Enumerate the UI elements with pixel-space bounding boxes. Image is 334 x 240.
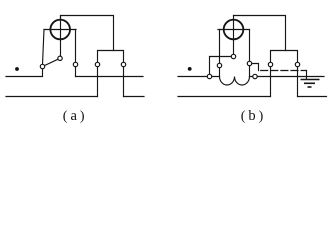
terminal: switch pivot (a) bbox=[40, 64, 44, 68]
wire: line A right segment bbox=[76, 76, 144, 78]
wire: line A right segment bbox=[250, 76, 325, 78]
wire: meter right lead down through C4 to line A bbox=[249, 30, 251, 77]
terminal C5 on line A (b) bbox=[253, 74, 257, 78]
terminal C4 meter right lead (b) bbox=[247, 61, 251, 65]
node dot: phase marker (a) bbox=[15, 67, 19, 71]
load box bar and legs bbox=[98, 51, 124, 97]
meter M2 (figure b) bbox=[224, 20, 244, 40]
terminal C3 meter left lead (b) bbox=[217, 63, 221, 67]
terminal C2 meter bottom lead (b) bbox=[231, 54, 235, 58]
wire: meter vertical lead (top stub + diameter + bottom lead to C2) bbox=[233, 16, 235, 57]
svg-text:(b): (b) bbox=[241, 108, 264, 124]
current coil loops in line A bbox=[220, 77, 250, 86]
terminal C1 on line A (b) bbox=[207, 74, 211, 78]
wire: line B left segment bbox=[6, 96, 98, 98]
wire: top wire from meter to load box bbox=[234, 16, 286, 51]
ground symbol bbox=[301, 80, 320, 88]
wire: meter right lead down to line A bbox=[75, 30, 77, 77]
terminal: load box left leg (b) bbox=[268, 62, 272, 66]
wire: meter vertical lead (top stub + vertical diameter + bottom lead) bbox=[60, 16, 62, 59]
wire: top wire from meter to load box bbox=[61, 16, 114, 51]
wire: line A left segment bbox=[178, 76, 220, 78]
wire: ground feed bbox=[306, 71, 308, 80]
terminal: load box left leg (a) bbox=[95, 62, 99, 66]
wire: meter horizontal diameter line bbox=[44, 29, 76, 31]
svg-text:(a): (a) bbox=[63, 108, 85, 124]
wire: meter horizontal diameter line bbox=[218, 29, 250, 31]
wire: line A left segment (live bus) bbox=[6, 69, 43, 77]
terminal: load box right leg (b) bbox=[295, 62, 299, 66]
dashed earth wire bbox=[259, 70, 307, 72]
terminal: switch throw (a) bbox=[58, 56, 62, 60]
wire: line B left segment bbox=[178, 96, 271, 98]
node dot: phase marker (b) bbox=[188, 67, 192, 71]
wire: meter left lead down to switch pivot bbox=[43, 30, 45, 65]
wire: switch blade bbox=[43, 58, 61, 66]
wire: meter left lead down through C3 to line A bbox=[219, 30, 221, 77]
meter M1 (figure a) bbox=[50, 20, 70, 40]
wire: branch from C4 to dashed earth lead bbox=[250, 64, 259, 71]
terminal: load box right leg (a) bbox=[121, 62, 125, 66]
terminal: meter right lead (a) bbox=[73, 62, 77, 66]
load box bar and legs bbox=[271, 51, 298, 97]
wire: line B right segment bbox=[298, 96, 327, 98]
wire: branch from node C1 up and right to meter bottom terminal C2 bbox=[210, 57, 234, 77]
wire: line B right segment bbox=[124, 96, 145, 98]
